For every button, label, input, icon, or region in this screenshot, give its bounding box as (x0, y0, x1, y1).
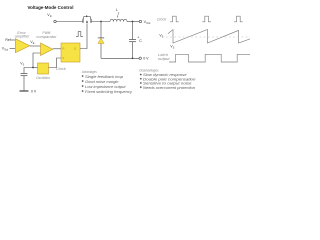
wire switch to inductor (91, 21, 110, 23)
svg-text:In: In (50, 14, 53, 18)
wire VE (30, 45, 41, 47)
wire junction to capacitor (132, 22, 134, 40)
svg-text:S: S (23, 63, 25, 66)
svg-text:S: S (173, 46, 175, 49)
wire inductor to Vout (127, 21, 139, 23)
svg-text:S: S (62, 56, 64, 60)
op-amp error amplifier (15, 39, 29, 53)
latch U1 (61, 43, 80, 62)
ground (20, 90, 29, 92)
node output junction (132, 21, 134, 23)
svg-text:Clock: Clock (157, 18, 167, 22)
op-amp PWM comparator (41, 43, 53, 56)
svg-text:Voltage-Mode Control: Voltage-Mode Control (28, 5, 74, 10)
svg-text:C: C (139, 39, 142, 43)
waveform clock pulse 1 (170, 16, 179, 22)
waveform clock pulse 2 (202, 16, 211, 22)
svg-text:output: output (158, 57, 171, 61)
svg-text:Needs overcurrent protection: Needs overcurrent protection (143, 85, 196, 90)
wire Ref input (11, 39, 16, 41)
node rail-capacitor junction (132, 57, 134, 59)
capacitor C (129, 40, 136, 42)
svg-text:PWM: PWM (42, 31, 50, 35)
svg-text:L: L (116, 8, 118, 12)
svg-text:Out: Out (4, 49, 8, 52)
node switch-diode junction (100, 21, 102, 23)
terminal Vin (54, 20, 56, 22)
svg-text:0 V: 0 V (143, 57, 149, 61)
svg-text:Ref: Ref (5, 38, 10, 42)
waveform sawtooth (168, 30, 250, 44)
svg-text:Clock: Clock (56, 67, 66, 71)
svg-text:comparator: comparator (36, 35, 57, 39)
svg-text:0 V: 0 V (31, 89, 37, 93)
wire ground rail (101, 57, 139, 59)
node clock junction (32, 67, 34, 69)
oscillator block (38, 63, 49, 74)
wire Vin to switch (56, 21, 83, 23)
advantage bullets (82, 74, 133, 94)
inductor L (110, 19, 127, 21)
wire latch Q to gate (80, 23, 87, 48)
gate pulse symbol (76, 32, 83, 37)
wire Vs input (33, 53, 41, 68)
disadvantage bullets (140, 72, 197, 90)
wire capacitor to rail (132, 42, 134, 59)
waveform latch output (169, 54, 250, 62)
waveform clock pulse 3 (234, 16, 243, 22)
svg-text:Fixed switching frequency: Fixed switching frequency (85, 89, 133, 94)
wire junction to diode (100, 22, 102, 38)
svg-text:Oscillator: Oscillator (36, 76, 51, 80)
wire junction to oscillator (33, 67, 38, 69)
svg-text:E: E (162, 36, 164, 39)
transistor switch Q1 (83, 15, 91, 23)
terminal Vout (139, 20, 141, 22)
wire timing capacitor to ground (23, 76, 25, 91)
svg-text:amplifier: amplifier (15, 35, 30, 39)
terminal 0V (139, 57, 141, 59)
capacitor timing (21, 74, 28, 76)
diode D1 (98, 38, 104, 58)
waveform VE dashed level (166, 36, 248, 38)
svg-text:Out: Out (146, 21, 150, 25)
wire comparator output to latch (53, 48, 61, 50)
wire feedback input (10, 47, 16, 49)
wire timing capacitor (24, 68, 33, 74)
wire oscillator to latch S (49, 58, 62, 68)
svg-text:E: E (33, 42, 35, 45)
